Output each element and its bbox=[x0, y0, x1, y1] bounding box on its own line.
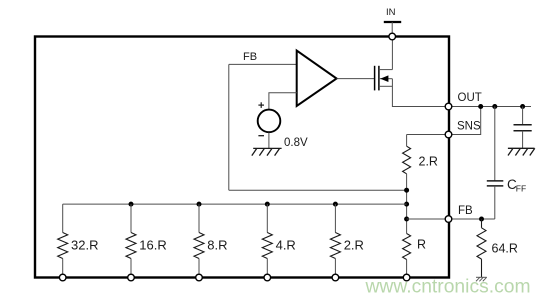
pin gnd 16R bbox=[128, 274, 135, 281]
IC boundary box bbox=[35, 37, 449, 278]
resistor 4.R bbox=[262, 204, 272, 277]
pin gnd 8R bbox=[196, 274, 203, 281]
wire R bottom lead bbox=[406, 260, 408, 278]
svg-text:IN: IN bbox=[386, 7, 396, 18]
capacitor CFF bbox=[487, 181, 504, 186]
svg-text:2.R: 2.R bbox=[419, 155, 438, 169]
pin gnd 2R bbox=[332, 274, 339, 281]
svg-text:0.8V: 0.8V bbox=[284, 137, 308, 149]
resistor 64.R bbox=[477, 219, 486, 278]
resistor 2.R ladder bbox=[330, 204, 340, 277]
ground (0.8V source) bbox=[252, 148, 282, 155]
node FB-feedback junction bbox=[404, 188, 409, 193]
svg-text:FB: FB bbox=[458, 205, 473, 217]
wire ladder rail bbox=[63, 203, 407, 205]
pin IN (open circle on rail) bbox=[389, 33, 396, 40]
svg-text:16.R: 16.R bbox=[139, 238, 166, 253]
svg-text:OUT: OUT bbox=[458, 92, 482, 104]
pin gnd 4R bbox=[264, 274, 271, 281]
ground (64.R) bbox=[476, 277, 487, 281]
node OUT-CFF junction bbox=[492, 104, 497, 109]
node OUT-SNS junction bbox=[478, 104, 483, 109]
resistor 16.R bbox=[126, 204, 136, 277]
wire FB input horizontal bbox=[229, 63, 297, 65]
node 16R junction bbox=[129, 202, 134, 207]
node 8R junction bbox=[197, 202, 202, 207]
svg-text:R: R bbox=[417, 238, 426, 252]
svg-text:8.R: 8.R bbox=[207, 238, 227, 253]
wire CFF bottom lead bbox=[494, 186, 496, 219]
svg-text:2.R: 2.R bbox=[344, 238, 364, 253]
pin IN terminal bar bbox=[384, 21, 401, 23]
wire op-amp noninverting input bbox=[269, 93, 297, 109]
wire source to ground bbox=[268, 133, 270, 149]
pin OUT bbox=[445, 103, 452, 110]
resistor 8.R bbox=[194, 204, 204, 277]
wire SNS to divider bbox=[407, 134, 449, 136]
svg-text:64.R: 64.R bbox=[492, 242, 518, 256]
wire FB feedback horizontal to divider bbox=[229, 189, 407, 191]
pin gnd R bbox=[403, 274, 410, 281]
label minus bbox=[258, 135, 264, 137]
wire SNS external loop bbox=[449, 107, 481, 135]
resistor 2.R (sense) bbox=[403, 146, 411, 174]
svg-text:4.R: 4.R bbox=[276, 238, 296, 253]
wire FB pin internal bbox=[407, 218, 449, 220]
wire drain to IN rail bbox=[391, 37, 393, 70]
ground (output capacitor) bbox=[508, 148, 535, 155]
wire CFF top lead bbox=[494, 107, 496, 181]
transistor NMOS pass element bbox=[375, 66, 393, 91]
wire source to OUT bbox=[392, 79, 448, 107]
pin SNS bbox=[445, 131, 452, 138]
node 2R junction bbox=[333, 202, 338, 207]
wire IN to top rail bbox=[391, 22, 393, 37]
wire FB feedback vertical bbox=[228, 64, 230, 190]
wire Cout bottom lead bbox=[522, 131, 524, 149]
svg-text:32.R: 32.R bbox=[71, 238, 98, 253]
svg-text:FF: FF bbox=[516, 184, 526, 194]
svg-text:www.cntronics.com: www.cntronics.com bbox=[365, 277, 531, 298]
node ladder junction bbox=[404, 202, 409, 207]
svg-text:SNS: SNS bbox=[457, 121, 481, 133]
voltage source 0.8V bbox=[258, 110, 281, 133]
wire divider mid bbox=[406, 174, 408, 234]
resistor 32.R bbox=[58, 204, 68, 277]
pin FB bbox=[445, 216, 452, 223]
op-amp error amplifier bbox=[297, 51, 337, 107]
node OUT-Cout junction bbox=[520, 104, 525, 109]
label plus bbox=[258, 102, 264, 108]
wire Cout top lead bbox=[522, 107, 524, 125]
capacitor Cout bbox=[514, 125, 532, 131]
node FB-64R junction bbox=[479, 217, 484, 222]
wire FB external bbox=[449, 218, 495, 220]
svg-text:FB: FB bbox=[243, 51, 257, 63]
node FB pin junction bbox=[404, 217, 409, 222]
wire OUT external rail bbox=[449, 106, 532, 108]
node 4R junction bbox=[265, 202, 270, 207]
pin gnd 32R bbox=[59, 274, 66, 281]
wire op-amp output to gate bbox=[337, 78, 375, 80]
wire 2R top lead bbox=[406, 135, 408, 147]
resistor R bbox=[403, 234, 411, 260]
